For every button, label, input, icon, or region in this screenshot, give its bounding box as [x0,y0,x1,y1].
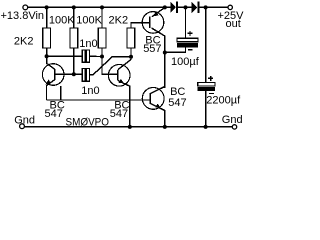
svg-text:100K: 100K [76,14,102,26]
svg-text:2K2: 2K2 [14,36,34,48]
svg-text:Gnd: Gnd [222,114,243,126]
svg-text:1n0: 1n0 [81,85,99,97]
svg-text:+13.8Vin: +13.8Vin [1,10,45,22]
svg-text:2200µf: 2200µf [206,95,241,107]
svg-text:547: 547 [110,108,128,120]
svg-text:100µf: 100µf [171,56,200,68]
svg-text:547: 547 [168,97,186,109]
svg-text:1n0: 1n0 [79,38,97,50]
svg-text:100K: 100K [49,14,75,26]
svg-text:SMØVPO: SMØVPO [66,116,110,128]
svg-text:547: 547 [45,108,63,120]
svg-text:out: out [226,18,241,30]
svg-text:2K2: 2K2 [109,14,129,26]
svg-text:Gnd: Gnd [14,114,35,126]
svg-text:557: 557 [143,43,161,55]
